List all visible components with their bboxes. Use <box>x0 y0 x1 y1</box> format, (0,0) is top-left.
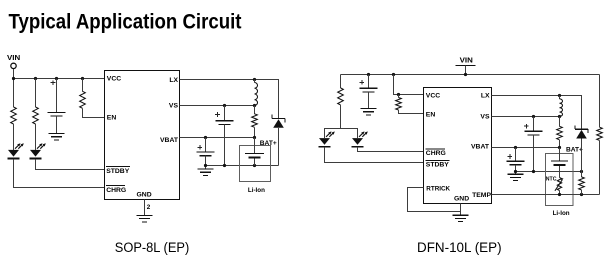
svg-text:STDBY: STDBY <box>106 168 130 175</box>
svg-text:VIN: VIN <box>7 53 20 62</box>
svg-text:TEMP: TEMP <box>472 192 491 199</box>
wire LX line (right) <box>492 96 582 130</box>
wire R3 to EN pin <box>83 108 105 117</box>
battery box BT1 <box>240 145 271 181</box>
wire VBAT-battery BT2 <box>559 148 561 161</box>
svg-text:2: 2 <box>147 204 151 211</box>
IC U1 (SOP-8L) <box>105 71 180 200</box>
wire VCC-R6 <box>398 95 400 98</box>
wire GND pin (U2) <box>460 204 462 216</box>
ground (U2 GND) <box>453 215 469 221</box>
wire rail-R2 <box>35 79 37 108</box>
wire R1-LED1 <box>13 124 15 150</box>
resistor R4 <box>252 114 258 128</box>
svg-text:VIN: VIN <box>460 55 473 64</box>
svg-text:Li-Ion: Li-Ion <box>553 210 570 217</box>
capacitor C1 (input) <box>48 80 66 116</box>
schottky diode D3 <box>272 115 285 128</box>
resistor R8 (TEMP low) <box>579 177 585 190</box>
wire rail to VCC pin <box>394 75 424 95</box>
svg-text:VS: VS <box>480 113 490 120</box>
wire LED D4 to STDBY pin <box>325 147 424 163</box>
wire VS-C5 <box>533 117 535 132</box>
wire VS-C2 <box>224 106 226 121</box>
wire LX line <box>180 80 279 119</box>
wire D6-return <box>581 139 583 172</box>
wire rail-R9 <box>599 75 601 128</box>
svg-text:VCC: VCC <box>107 75 121 82</box>
wire R9-TEMP line <box>599 140 601 194</box>
wire LED tee <box>325 129 358 139</box>
wire battery BT2 - NTC <box>559 166 561 178</box>
svg-text:VBAT: VBAT <box>160 137 179 144</box>
wire battery return line (right) <box>516 171 582 173</box>
capacitor C2 (VS) <box>215 112 233 124</box>
junction dots return line (right) <box>514 170 517 173</box>
svg-text:Typical Application Circuit: Typical Application Circuit <box>9 10 242 33</box>
svg-text:CHRG: CHRG <box>426 150 446 157</box>
wire C2-return <box>224 124 226 165</box>
svg-text:BAT+: BAT+ <box>566 147 583 154</box>
wire L2-R7 <box>559 117 561 127</box>
wire VBAT line (right) <box>492 147 560 149</box>
svg-text:NTC: NTC <box>546 177 557 183</box>
IC U2 (DFN-10L) <box>424 88 492 204</box>
resistor R3 (EN pull-up) <box>80 91 86 108</box>
ground (U1 GND) <box>137 215 153 221</box>
junction dots VS line (right) <box>532 115 535 118</box>
wire rail-C4 <box>368 75 370 89</box>
thermistor NTC <box>557 178 561 191</box>
capacitor C4 (input) <box>360 80 378 92</box>
terminal VIN (right) <box>456 65 476 67</box>
capacitor C5 (VS) <box>524 124 542 135</box>
junction dots top rail <box>367 73 370 76</box>
wire R8-TEMP line <box>581 190 583 195</box>
LED D1 (CHRG) <box>8 143 24 158</box>
capacitor C6 (VBAT) <box>507 154 525 165</box>
wire RTRICK loop <box>408 188 461 212</box>
resistor R6 (EN pull-up) <box>396 98 402 111</box>
wire LED1 to CHRG pin <box>14 159 105 188</box>
svg-text:LX: LX <box>481 93 490 100</box>
inductor L1 <box>255 83 258 106</box>
svg-text:VCC: VCC <box>426 93 440 100</box>
wire C1-gnd <box>56 116 58 133</box>
wire return-R8 <box>581 172 583 177</box>
wire rail-C1 <box>56 79 58 113</box>
resistor R1 <box>11 107 17 124</box>
wire VBAT-battery BT1 <box>254 138 256 154</box>
svg-text:EN: EN <box>426 112 436 119</box>
junction dot LX-L1 <box>253 78 256 81</box>
wire battery return line <box>206 165 279 167</box>
svg-text:GND: GND <box>454 195 469 202</box>
svg-text:VBAT: VBAT <box>471 144 490 151</box>
battery BT2 <box>551 161 568 165</box>
junction dots VBAT line <box>204 136 207 139</box>
wire C4-gnd <box>368 92 370 109</box>
ground (C3) <box>198 169 214 175</box>
svg-text:VS: VS <box>169 102 179 109</box>
wire C3-return <box>205 156 207 169</box>
wire VIN down <box>13 69 15 107</box>
junction dots on VCC rail <box>12 77 15 80</box>
svg-text:LX: LX <box>169 77 178 84</box>
ground (C6) <box>508 174 524 180</box>
wire R7-BAT+ <box>559 140 561 148</box>
junction dots VS line <box>223 104 226 107</box>
wire C6-return <box>515 165 517 174</box>
resistor R5 (LED feed) <box>338 88 344 105</box>
wire NTC-TEMP line <box>559 191 561 195</box>
wire R5-LED tee <box>340 105 342 129</box>
svg-text:SOP-8L (EP): SOP-8L (EP) <box>115 240 190 255</box>
svg-text:EN: EN <box>107 114 117 121</box>
wire VIN stub <box>465 66 467 75</box>
svg-text:STDBY: STDBY <box>426 161 450 168</box>
battery box BT2 <box>546 154 574 206</box>
wire top rail <box>341 74 600 76</box>
wire VCC rail <box>14 78 105 80</box>
wire rail-R5 <box>340 75 342 88</box>
wire D3-return <box>278 128 280 166</box>
svg-text:GND: GND <box>137 192 152 199</box>
wire LED2 to STDBY pin <box>36 159 105 170</box>
inductor L2 <box>560 99 563 117</box>
LED D5 (CHRG) <box>352 131 368 146</box>
wire VBAT-C6 <box>515 148 517 162</box>
ground (C1) <box>49 134 65 140</box>
wire LED D5 to CHRG pin <box>358 147 424 152</box>
wire R4-VBAT <box>254 127 256 137</box>
resistor R7 <box>557 126 563 140</box>
wire L1-R4 <box>254 106 256 114</box>
svg-text:CHRG: CHRG <box>106 187 126 194</box>
wire C5-return <box>533 135 535 172</box>
wire LX-L1 <box>254 80 256 83</box>
wire rail-R3 <box>82 79 84 92</box>
wire R6 to EN pin <box>399 110 424 114</box>
wire R2-LED2 <box>35 124 37 150</box>
LED D2 (STDBY) <box>30 143 46 158</box>
battery BT1 <box>245 154 264 158</box>
junction dots return line <box>204 164 207 167</box>
svg-text:DFN-10L (EP): DFN-10L (EP) <box>417 240 502 255</box>
junction dots TEMP line <box>558 193 561 196</box>
junction dot LX-L2 <box>558 94 561 97</box>
junction dots VBAT line (right) <box>514 146 517 149</box>
LED D4 (STDBY) <box>319 131 335 146</box>
wire battery BT1 - return <box>254 159 256 166</box>
capacitor C3 (VBAT) <box>197 145 215 156</box>
svg-text:Li-Ion: Li-Ion <box>248 187 265 194</box>
schottky diode D6 <box>575 125 588 138</box>
wire VBAT-C3 <box>205 138 207 153</box>
junction dot R6 top <box>397 93 400 96</box>
wire TEMP line <box>492 194 600 196</box>
wire GND pin (U1) <box>144 200 146 216</box>
terminal VIN (left) <box>11 63 16 68</box>
resistor R2 <box>33 107 39 124</box>
wire VS line (right) <box>492 116 560 118</box>
resistor R9 (TEMP high) <box>597 127 603 140</box>
svg-text:RTRICK: RTRICK <box>426 185 450 192</box>
ground (C4) <box>361 109 377 115</box>
wire VBAT line <box>180 137 255 139</box>
wire LX-L2 <box>559 96 561 99</box>
wire VS line <box>180 105 255 107</box>
